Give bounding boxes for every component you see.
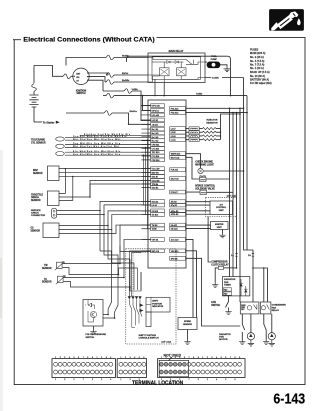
- svg-text:SWITCH: SWITCH: [86, 337, 95, 339]
- svg-text:FAN: FAN: [219, 336, 224, 339]
- svg-text:6: 6: [184, 357, 185, 359]
- svg-text:7: 7: [230, 357, 231, 359]
- svg-text:INDICATOR: INDICATOR: [152, 305, 163, 308]
- svg-text:1: 1: [97, 357, 98, 359]
- svg-text:IGP1 A16: IGP1 A16: [152, 105, 160, 108]
- svg-text:SENSOR: SENSOR: [31, 230, 41, 232]
- svg-text:L4 A7: L4 A7: [171, 127, 176, 130]
- svg-text:O2 B10: O2 B10: [152, 211, 158, 213]
- wire fuse row 91 (Yel/Blu) to ECU +B: [103, 90, 124, 92]
- svg-text:1: 1: [55, 379, 56, 381]
- svg-text:+B A25: +B A25: [152, 123, 158, 126]
- wire solenoid to bus: [207, 113, 237, 277]
- A/T control unit U2: [210, 201, 233, 215]
- svg-text:SHIFT: SHIFT: [152, 301, 159, 303]
- svg-text:TDC B15: TDC B15: [152, 152, 160, 154]
- wire IG1 feeds: [88, 73, 108, 91]
- svg-text:8: 8: [193, 357, 194, 359]
- ground compressor relay: [215, 268, 218, 283]
- svg-text:MAP B8: MAP B8: [152, 171, 159, 174]
- svg-text:INTAKE CONTROL: INTAKE CONTROL: [195, 185, 216, 188]
- inner A/T dashed region: [133, 253, 148, 296]
- wire battery feed to ignition switch: [34, 66, 63, 77]
- svg-text:MAIN RELAY: MAIN RELAY: [169, 50, 184, 53]
- svg-text:9: 9: [239, 357, 240, 359]
- svg-text:ACC A10: ACC A10: [171, 238, 179, 241]
- svg-text:SG B12: SG B12: [152, 214, 159, 216]
- svg-text:WARNING LIGHT: WARNING LIGHT: [195, 163, 214, 166]
- wires MAP sensor to ECU: [59, 169, 151, 177]
- svg-text:SCS A4: SCS A4: [152, 200, 159, 203]
- wires service check to ECU: [57, 201, 151, 210]
- svg-text:CRK B11: CRK B11: [152, 145, 160, 147]
- condenser fan relay: [260, 302, 271, 314]
- wire fuse row 75 (Blk/Yel): [106, 74, 108, 76]
- svg-text:CRK B16: CRK B16: [152, 160, 160, 162]
- svg-text:9: 9: [92, 357, 93, 359]
- A/T only dashed enclosure: [206, 197, 237, 216]
- svg-text:TERMINAL LOCATION: TERMINAL LOCATION: [132, 380, 183, 386]
- svg-text:TW B6: TW B6: [152, 225, 158, 227]
- wire ECU bottom pins into console switch: [129, 251, 141, 297]
- main relay: [148, 50, 205, 83]
- svg-text:VSP A8: VSP A8: [152, 238, 158, 241]
- svg-text:FUSES: FUSES: [250, 49, 259, 52]
- igniter unit U3: [211, 222, 229, 230]
- svg-text:Wht/Grn: Wht/Grn: [130, 110, 138, 113]
- svg-text:5: 5: [221, 357, 222, 359]
- svg-text:RADIATOR: RADIATOR: [224, 278, 236, 281]
- svg-text:LG1 A23: LG1 A23: [152, 114, 159, 117]
- svg-text:VSS B10: VSS B10: [171, 251, 179, 253]
- junction dots on sensor rows: [143, 154, 145, 156]
- svg-text:3: 3: [106, 357, 107, 359]
- svg-text:SWITCH: SWITCH: [76, 93, 85, 95]
- ignition switch: [73, 68, 89, 95]
- svg-text:CONDENSER: CONDENSER: [272, 305, 286, 307]
- svg-text:CYL B13: CYL B13: [152, 148, 160, 150]
- svg-text:BATTERY (80 A): BATTERY (80 A): [250, 79, 269, 82]
- fuse main (on ignition feed): [63, 74, 71, 79]
- wire PG grounds to bus: [186, 108, 248, 112]
- svg-text:Blu/Grn Org/Blu Wht/Blu Blu: Blu/Grn Org/Blu Wht/Blu Blu: [84, 133, 131, 136]
- svg-text:3: 3: [130, 379, 131, 381]
- svg-text:SHIFT POSITION: SHIFT POSITION: [139, 335, 157, 337]
- svg-text:Blu/Wht: Blu/Wht: [122, 79, 130, 82]
- svg-text:7: 7: [189, 379, 190, 381]
- scan edge shading: [0, 150, 3, 411]
- svg-text:2: 2: [207, 357, 208, 359]
- svg-text:7: 7: [189, 357, 190, 359]
- svg-text:VCC1 B9: VCC1 B9: [152, 169, 160, 171]
- svg-text:SENSOR: SENSOR: [33, 173, 43, 175]
- svg-text:Yel/Blk: Yel/Blk: [196, 93, 203, 95]
- svg-text:THROTTLE: THROTTLE: [31, 194, 43, 196]
- wire relay out Grn/Blk to right bus: [205, 77, 244, 79]
- ground igniter: [222, 230, 224, 234]
- not used inner box: [159, 360, 188, 376]
- fuel system section icon (black tab with gas nozzle): [270, 10, 304, 31]
- svg-text:PG2 A24: PG2 A24: [171, 112, 179, 115]
- svg-text:ICS A17: ICS A17: [171, 191, 178, 194]
- svg-text:MAP: MAP: [33, 169, 38, 172]
- svg-text:9: 9: [198, 357, 199, 359]
- svg-text:SG1 B7: SG1 B7: [152, 176, 159, 178]
- svg-text:RELAY: RELAY: [272, 309, 280, 312]
- svg-text:FAN: FAN: [272, 306, 277, 309]
- svg-text:MOTOR: MOTOR: [219, 339, 228, 341]
- svg-text:TA: TA: [44, 278, 47, 281]
- svg-text:2: 2: [207, 379, 208, 381]
- svg-text:CHECK ENGINE: CHECK ENGINE: [195, 162, 213, 164]
- wire lamp to bus: [203, 108, 243, 302]
- svg-text:1: 1: [161, 357, 162, 359]
- svg-text:To Starter: To Starter: [43, 122, 55, 125]
- wires ECU to A/T control unit: [186, 202, 211, 215]
- svg-text:No. 4 (7.5 A): No. 4 (7.5 A): [250, 60, 265, 63]
- wire compressor relay to bus: [224, 267, 237, 269]
- wire bundle along ECU left edge: [144, 140, 148, 229]
- svg-text:SWITCH: SWITCH: [211, 305, 220, 307]
- svg-text:Wht/Blu: Wht/Blu: [122, 54, 130, 57]
- wire branch into ECU IGP pins: [143, 96, 151, 111]
- svg-text:2: 2: [101, 357, 102, 359]
- svg-text:No.3 A5: No.3 A5: [152, 136, 159, 139]
- svg-text:7: 7: [83, 357, 84, 359]
- wires TA sensor: [64, 239, 151, 277]
- wire speed sensor feeds from ECU: [186, 239, 194, 317]
- diodes in console switch: [128, 297, 131, 300]
- svg-text:MAIN (100 A): MAIN (100 A): [250, 52, 265, 55]
- svg-text:BAT A18: BAT A18: [152, 250, 159, 253]
- shift position console switch dashed box (A/T only): [126, 249, 176, 344]
- fuel pump: [207, 56, 220, 68]
- svg-text:TA B8: TA B8: [152, 228, 157, 231]
- svg-text:5: 5: [179, 357, 180, 359]
- fuses legend: [250, 49, 272, 86]
- svg-text:SPEED: SPEED: [184, 321, 192, 323]
- speed sensor: [178, 318, 197, 330]
- svg-text:SENSOR: SENSOR: [42, 268, 52, 270]
- wire stubs into ECU left pins: [142, 106, 151, 251]
- svg-text:PG1 A23: PG1 A23: [171, 107, 179, 110]
- svg-text:6: 6: [225, 357, 226, 359]
- wires O2 sensor to ECU: [59, 211, 151, 226]
- svg-text:4: 4: [216, 357, 217, 359]
- injector No.4 with resistor: [186, 139, 190, 141]
- svg-text:Blk/Yel: Blk/Yel: [122, 73, 129, 75]
- svg-text:FLR A15: FLR A15: [171, 169, 178, 172]
- P/S oil pressure switch: [83, 300, 103, 327]
- wires throttle sensor shared rails: [59, 169, 65, 194]
- svg-text:9: 9: [92, 379, 93, 381]
- wire row 95.6 bus feed (Yel/Blk): [103, 95, 106, 97]
- svg-text:No. 13 (30 A): No. 13 (30 A): [250, 75, 265, 78]
- svg-text:CONSOLE SWITCH: CONSOLE SWITCH: [139, 338, 159, 340]
- svg-text:FAN: FAN: [224, 281, 229, 284]
- svg-text:2: 2: [101, 379, 102, 381]
- svg-text:INJECTOR: INJECTOR: [206, 120, 217, 122]
- svg-text:6-143: 6-143: [273, 391, 305, 407]
- svg-text:8: 8: [87, 357, 88, 359]
- svg-text:CYL SENSOR: CYL SENSOR: [31, 142, 46, 144]
- svg-text:CLUTCH RELAY: CLUTCH RELAY: [211, 263, 229, 266]
- svg-text:PUMP: PUMP: [211, 59, 218, 61]
- wires TW sensor: [63, 225, 151, 263]
- pickup coil sensor: [56, 144, 65, 148]
- svg-text:Grn/Blk: Grn/Blk: [212, 78, 220, 80]
- svg-text:2: 2: [125, 357, 126, 359]
- svg-text:9: 9: [198, 379, 199, 381]
- svg-text:4: 4: [216, 379, 217, 381]
- radiator fan timer: [222, 277, 249, 296]
- svg-text:SENSOR: SENSOR: [183, 324, 192, 326]
- wire relay to fuel pump: [205, 61, 207, 63]
- wire to starter: [34, 121, 42, 123]
- svg-text:8: 8: [235, 379, 236, 381]
- svg-text:UNIT: UNIT: [217, 227, 223, 229]
- svg-text:SENSOR: SENSOR: [31, 200, 41, 202]
- injector No.2 with resistor: [186, 131, 190, 133]
- wire bus to condenser fan relay: [247, 96, 268, 302]
- svg-text:EACV A9: EACV A9: [171, 177, 179, 180]
- svg-text:ATp B3: ATp B3: [171, 204, 177, 207]
- ECU left pin boxes: [151, 104, 165, 253]
- svg-text:CONNECTOR: CONNECTOR: [31, 215, 45, 217]
- radiator fan relay: [240, 302, 259, 314]
- svg-text:No.2 A3: No.2 A3: [152, 132, 159, 135]
- terminal strip A: [52, 359, 116, 378]
- radiator fan motor M1: [247, 333, 254, 340]
- svg-text:L2 A3: L2 A3: [171, 135, 176, 138]
- svg-text:IGP2 B1: IGP2 B1: [152, 110, 159, 112]
- svg-text:UNIT: UNIT: [219, 210, 225, 212]
- svg-text:IGNITER: IGNITER: [215, 224, 224, 226]
- wire relay outputs to motors and ground: [242, 314, 244, 340]
- svg-text:FAN: FAN: [211, 301, 216, 304]
- svg-text:4: 4: [110, 379, 111, 381]
- svg-text:FUEL: FUEL: [211, 56, 217, 58]
- svg-text:Wht Blu/Grn Wht Blu/Grn Wh: Wht Blu/Grn Wht Blu/Grn Wht: [73, 138, 121, 141]
- svg-text:1: 1: [202, 357, 203, 359]
- svg-text:CONTROL: CONTROL: [216, 207, 227, 209]
- svg-text:1A: 1A: [231, 254, 234, 257]
- svg-text:6: 6: [78, 357, 79, 359]
- svg-text:2: 2: [60, 357, 61, 359]
- border frame of diagram: [13, 39, 21, 41]
- svg-text:(A/T only): (A/T only): [162, 340, 172, 343]
- wires ECU to igniter: [186, 225, 211, 228]
- terminal strip C (with NOT USED block): [158, 359, 245, 378]
- svg-text:RADIATOR: RADIATOR: [219, 333, 231, 336]
- wire fuel pump to ground: [220, 65, 227, 67]
- svg-text:7: 7: [83, 379, 84, 381]
- ECU (PGM-FI control unit): [148, 100, 186, 268]
- console switch contacts: [129, 300, 142, 317]
- svg-text:1A: 1A: [248, 254, 251, 257]
- svg-text:EACV: EACV: [200, 175, 207, 178]
- wire EACV to bus: [206, 108, 230, 276]
- svg-text:2: 2: [166, 357, 167, 359]
- svg-text:CYL B14: CYL B14: [152, 156, 160, 158]
- wire fuse row 113 (Wht/Grn): [66, 112, 104, 114]
- svg-text:1: 1: [55, 357, 56, 359]
- svg-text:4: 4: [134, 357, 135, 359]
- svg-text:No.1 A1: No.1 A1: [152, 128, 159, 131]
- svg-text:L3 A5: L3 A5: [171, 131, 176, 134]
- svg-text:P/S OIL PRESSURE: P/S OIL PRESSURE: [86, 334, 107, 336]
- svg-text:SOLENOID VALVE: SOLENOID VALVE: [195, 187, 215, 190]
- pickup coil sensor: [56, 152, 65, 156]
- svg-text:BACK UP (7.5 A): BACK UP (7.5 A): [250, 71, 270, 74]
- svg-text:6: 6: [143, 357, 144, 359]
- svg-text:3: 3: [170, 357, 171, 359]
- svg-text:Yel/Blu: Yel/Blu: [132, 89, 139, 91]
- wire relay bottom pin to bus row: [155, 79, 164, 95]
- svg-text:3: 3: [64, 379, 65, 381]
- compressor clutch relay: [208, 217, 211, 263]
- right bus 1A fuse taps: [244, 78, 254, 303]
- condenser fan motor M2: [268, 333, 275, 340]
- svg-text:SPD B8: SPD B8: [171, 258, 178, 260]
- svg-text:EACV A11: EACV A11: [171, 156, 180, 159]
- svg-text:IGNITION: IGNITION: [76, 90, 87, 92]
- svg-text:1: 1: [120, 357, 121, 359]
- svg-text:5: 5: [139, 357, 140, 359]
- ground speed sensor: [187, 330, 189, 340]
- svg-text:5: 5: [74, 357, 75, 359]
- svg-text:No. 2 (15 A): No. 2 (15 A): [250, 56, 264, 59]
- svg-text:Blu Wht/Red Blu Wht/Red Bl: Blu Wht/Red Blu Wht/Red Blu: [73, 150, 121, 153]
- wire fuse row 57 (Wht/Blu): [66, 58, 106, 66]
- svg-text:COMPRESSOR: COMPRESSOR: [211, 262, 228, 264]
- injector No.1 with resistor: [186, 128, 190, 130]
- svg-text:L1 A1: L1 A1: [171, 139, 176, 142]
- pickup coil sensor: [56, 137, 65, 141]
- svg-text:Grn Blu/Wht Grn Blu/Wht Gr: Grn Blu/Wht Grn Blu/Wht Grn: [73, 153, 121, 156]
- svg-text:(A/T only): (A/T only): [227, 194, 237, 197]
- terminal strip B: [117, 359, 146, 378]
- svg-text:TDC/CRANK/: TDC/CRANK/: [31, 139, 45, 142]
- svg-text:ANGLE: ANGLE: [31, 196, 39, 199]
- svg-text:LG A6: LG A6: [152, 204, 157, 207]
- ECU right pin boxes: [170, 107, 186, 261]
- svg-text:SENSOR: SENSOR: [42, 282, 52, 284]
- ground P/S switch: [93, 326, 95, 330]
- svg-text:IGb A22: IGb A22: [171, 227, 178, 230]
- staircase verticals to lower components: [100, 211, 112, 300]
- svg-text:POSITION: POSITION: [152, 303, 162, 305]
- wire fuse row 82 (Blu/Wht): [105, 81, 106, 83]
- wire over relay to bus: [127, 56, 231, 95]
- svg-text:No.4 A2: No.4 A2: [152, 140, 159, 143]
- wires crank/cyl sensors to ECU: [65, 136, 151, 138]
- svg-text:3: 3: [130, 357, 131, 359]
- svg-text:4: 4: [175, 357, 176, 359]
- svg-text:Org Wht/Blu Org Wht/Blu Or: Org Wht/Blu Org Wht/Blu Org: [73, 142, 121, 145]
- svg-text:1: 1: [120, 379, 121, 381]
- svg-text:Electrical Connections (Withou: Electrical Connections (Without CATA): [23, 36, 155, 43]
- svg-text:4: 4: [69, 357, 70, 359]
- svg-text:RESISTOR: RESISTOR: [206, 122, 218, 124]
- svg-text:8: 8: [235, 357, 236, 359]
- svg-text:No. 1 (10 A): No. 1 (10 A): [250, 67, 264, 70]
- shift position indicator: [146, 297, 170, 312]
- svg-text:No. 7 (7.5 A): No. 7 (7.5 A): [250, 64, 265, 67]
- svg-text:LG2 B2: LG2 B2: [152, 120, 158, 122]
- injector No.3 with resistor: [186, 135, 190, 137]
- svg-text:6: 6: [225, 379, 226, 381]
- svg-text:3: 3: [212, 357, 213, 359]
- svg-text:AFSb B6: AFSb B6: [171, 213, 179, 216]
- battery: [29, 66, 38, 123]
- svg-text:For RR wiper (NH): For RR wiper (NH): [250, 82, 272, 85]
- wires into P/S switch: [103, 299, 112, 315]
- wire injector common to bus: [221, 114, 241, 140]
- svg-text:SG2 B3: SG2 B3: [152, 187, 159, 189]
- svg-text:4: 4: [110, 357, 111, 359]
- svg-text:5: 5: [74, 379, 75, 381]
- svg-text:TIMER: TIMER: [224, 285, 231, 287]
- svg-text:Wht Blu/Yel Wht Blu/Yel Wh: Wht Blu/Yel Wht Blu/Yel Wht: [73, 145, 120, 148]
- svg-text:WARN A13: WARN A13: [171, 153, 181, 156]
- svg-text:3: 3: [64, 357, 65, 359]
